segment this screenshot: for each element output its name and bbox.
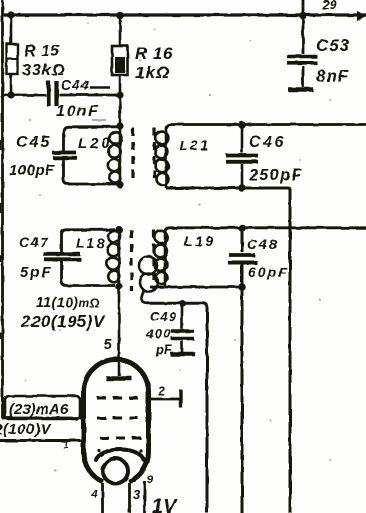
svg-text:C44: C44 xyxy=(61,77,90,93)
svg-text:C47: C47 xyxy=(19,234,49,250)
svg-text:10nF: 10nF xyxy=(56,103,99,120)
svg-text:2(100)V: 2(100)V xyxy=(0,421,52,438)
svg-text:R 15: R 15 xyxy=(24,43,60,60)
svg-text:C48: C48 xyxy=(247,236,279,252)
svg-text:(23)mA6: (23)mA6 xyxy=(9,401,69,418)
svg-text:100pF: 100pF xyxy=(9,162,55,179)
svg-text:1: 1 xyxy=(63,440,69,451)
svg-text:1kΩ: 1kΩ xyxy=(135,63,170,82)
svg-text:L21: L21 xyxy=(179,137,211,153)
svg-text:C49: C49 xyxy=(150,309,177,324)
svg-text:L19: L19 xyxy=(184,233,216,249)
svg-text:C46: C46 xyxy=(249,134,286,151)
svg-text:pF: pF xyxy=(155,342,173,357)
svg-text:5: 5 xyxy=(104,336,112,352)
svg-text:8nF: 8nF xyxy=(316,67,349,86)
svg-text:220(195)V: 220(195)V xyxy=(20,312,106,331)
svg-text:400: 400 xyxy=(145,326,172,341)
svg-text:C45: C45 xyxy=(16,134,51,151)
svg-text:4: 4 xyxy=(90,488,97,500)
svg-text:C53: C53 xyxy=(316,36,350,55)
svg-text:L20: L20 xyxy=(78,135,113,152)
svg-text:L18: L18 xyxy=(76,235,106,251)
svg-text:60pF: 60pF xyxy=(248,264,289,280)
svg-text:33kΩ: 33kΩ xyxy=(22,62,65,79)
svg-text:9: 9 xyxy=(147,474,154,486)
svg-text:3: 3 xyxy=(133,487,141,502)
svg-text:5pF: 5pF xyxy=(20,264,53,281)
svg-text:29: 29 xyxy=(321,0,337,12)
svg-text:11(10)mΩ: 11(10)mΩ xyxy=(36,294,100,310)
svg-text:250pF: 250pF xyxy=(248,167,303,184)
svg-text:1V: 1V xyxy=(152,496,178,513)
svg-text:2: 2 xyxy=(157,384,165,398)
